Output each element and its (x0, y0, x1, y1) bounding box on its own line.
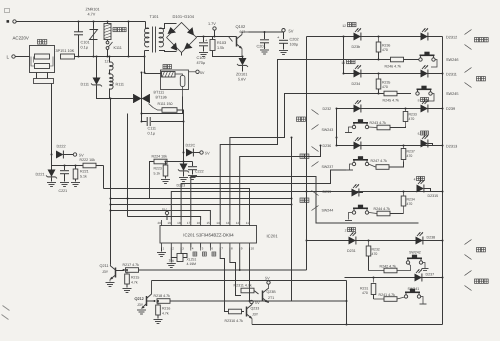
svg-text:R216: R216 (162, 307, 170, 311)
junction top rail x107 (107, 21, 109, 23)
svg-text:R237: R237 (407, 150, 415, 154)
label R245 4.7k (383, 99, 400, 103)
resistor R241 (374, 297, 404, 302)
junction 5V rail x264 (264, 31, 266, 33)
switch SW244 (345, 205, 369, 221)
scan artifact top-left (5, 9, 10, 13)
wire scan row1s to pin14 (220, 60, 378, 221)
inductor L111b (110, 74, 114, 98)
IC201 NC pins (191, 243, 216, 256)
label R221 value (80, 175, 87, 179)
label 1.7V (208, 22, 216, 26)
label C101 (81, 41, 90, 45)
label C222 (195, 170, 204, 174)
svg-text:+: + (277, 35, 280, 40)
IC201 top pins 20-11 (158, 220, 250, 226)
resistor R245 (379, 91, 412, 96)
resistor R2311 (236, 288, 259, 295)
svg-text:470µ: 470µ (197, 61, 206, 65)
junction L rail x109 (109, 56, 111, 58)
wire bus y188 to pin11 (104, 189, 250, 221)
label BT136 (156, 96, 167, 100)
label C202 (290, 38, 299, 42)
capacitor C102 (199, 37, 208, 57)
junction row2 R235 (378, 73, 380, 75)
svg-text:C221: C221 (59, 189, 68, 193)
label Q233 (251, 307, 260, 311)
terminal 5V main (282, 29, 285, 40)
label D222 (57, 145, 66, 149)
junction cluster x183 y161 (183, 161, 185, 163)
resistor R235 (376, 74, 381, 94)
heater plate RL1 (104, 22, 111, 42)
label D237 (426, 273, 435, 277)
svg-text:470: 470 (382, 48, 388, 52)
junction row7 bus (442, 277, 444, 279)
label 0V keepwarm (200, 71, 205, 75)
svg-text:T101: T101 (150, 14, 160, 19)
zener ZD101 (237, 57, 248, 72)
label SW242 (409, 250, 421, 254)
zener D223 (178, 164, 189, 182)
label R112 150 (158, 102, 173, 106)
resistor R221 (71, 166, 80, 187)
label D223 (177, 184, 186, 188)
resistor R223 (161, 162, 170, 184)
label C201 (257, 45, 266, 49)
label 2xiaoshi (345, 228, 356, 233)
wire cathode bus (442, 37, 444, 325)
LED D2311led (421, 65, 429, 77)
svg-text:10: 10 (251, 246, 255, 250)
svg-text:470: 470 (407, 202, 413, 206)
wire pin9 down (239, 248, 241, 271)
capacitor C221 (60, 166, 69, 187)
wire bus y204 (111, 204, 292, 206)
wire row1 (307, 36, 443, 38)
wire bus y210 to pin15 (111, 211, 211, 221)
wire Q236 emitter row (269, 300, 347, 302)
wire row5b jog (424, 189, 431, 192)
junction triac top y72 (141, 72, 143, 74)
label D232 (323, 107, 332, 111)
svg-text:SW243: SW243 (322, 128, 334, 132)
junction triac bottom y113 (141, 113, 143, 115)
svg-text:D232: D232 (323, 107, 332, 111)
label R241 4.7k (379, 293, 396, 297)
label Q236 (267, 290, 277, 294)
switch SW242 (406, 255, 428, 271)
label R215 (131, 276, 139, 280)
label Q212 (135, 297, 144, 307)
label D238 (427, 236, 436, 240)
junction sense row x64 (64, 165, 66, 167)
wire pin7 to R2310 (220, 248, 228, 312)
junction row5 R234 (403, 191, 405, 193)
svg-text:L: L (7, 55, 10, 60)
svg-text:10: 10 (341, 61, 345, 65)
label R232 value (372, 252, 378, 256)
svg-text:4: 4 (192, 246, 194, 250)
junction x346 y300 (346, 300, 348, 302)
LED D23b (354, 28, 362, 40)
wire Q233 emitter bottom row (252, 324, 443, 326)
label XL251 (187, 258, 197, 262)
capacitor C222 (188, 162, 197, 180)
label C111 value (148, 132, 156, 136)
junction row4 R237 (403, 145, 405, 147)
svg-text:R103: R103 (217, 41, 226, 45)
label D111 (81, 83, 90, 87)
label C102 (197, 56, 206, 60)
junction sense row x75 (75, 165, 77, 167)
svg-text:D23b: D23b (352, 45, 361, 49)
wire row5 (307, 191, 443, 193)
svg-text:C111: C111 (148, 127, 157, 131)
svg-text:J3Y: J3Y (252, 313, 259, 317)
label R223 value (154, 172, 161, 176)
wire 5V rail (249, 31, 284, 33)
junction row3 bus (442, 108, 444, 110)
junction x127 y198 (127, 198, 129, 200)
svg-text:3P151 10K: 3P151 10K (56, 49, 75, 53)
svg-text:Q233: Q233 (251, 307, 260, 311)
svg-text:100µ: 100µ (290, 43, 299, 47)
junction x346 y324 (346, 324, 348, 326)
wire matrix left link x343 (343, 37, 345, 74)
wire bus y183 to pin18 (181, 170, 346, 220)
label IC201 part (183, 233, 234, 238)
junction Q211 base node (123, 269, 125, 271)
junction x110 y204 (110, 204, 112, 206)
thermal fuse F1 (175, 74, 185, 97)
label baowen (163, 65, 172, 69)
svg-text:R236: R236 (382, 44, 390, 48)
zener D111 (91, 57, 111, 99)
svg-text:Q23B: Q23B (267, 290, 277, 294)
svg-text:5.6V: 5.6V (238, 78, 246, 82)
junction R216 top (157, 300, 159, 302)
capacitor C111 (142, 117, 184, 126)
node a mains terminal (7, 20, 146, 23)
label Q233 J3Y (252, 313, 259, 317)
wire row5 extension to pin19 (171, 192, 306, 221)
function label dingshi (465, 240, 486, 260)
diode D22C (186, 149, 200, 157)
terminal 1.7V (213, 27, 216, 37)
junction row3 left (336, 108, 338, 110)
svg-text:5V: 5V (289, 29, 294, 34)
junction cluster x165 y161 (165, 161, 167, 163)
svg-text:SW245: SW245 (446, 92, 458, 96)
svg-text:Q211: Q211 (100, 264, 109, 268)
wire pin8 to R2311 (230, 248, 241, 296)
LED D2312led (421, 28, 429, 40)
svg-text:K111: K111 (114, 46, 122, 50)
resistor R2310 (229, 309, 245, 314)
svg-text:13: 13 (226, 221, 230, 225)
junction x291 y137 (291, 137, 293, 139)
svg-text:R241 4.7k: R241 4.7k (379, 293, 396, 297)
label R218 4.7k (154, 294, 171, 298)
junction Q212 base node (154, 300, 156, 302)
LED D232 (354, 100, 362, 112)
wire pin10 down (249, 248, 251, 302)
svg-text:D221: D221 (36, 173, 45, 177)
wire matrix left bus x306 (306, 37, 308, 271)
IC201 bottom pins 1-10 (162, 243, 255, 250)
label R2310 4.7k (225, 319, 244, 323)
junction L rail x96 (96, 56, 98, 58)
svg-text:D2313: D2313 (446, 145, 457, 149)
wire row5 led jog (359, 192, 363, 193)
label R221 (80, 170, 89, 174)
label D23b (352, 45, 361, 49)
junction L rail x107 (107, 56, 109, 58)
resistor R222 (83, 163, 104, 168)
junction x320 y145 (320, 145, 322, 147)
function label baowenguan (465, 271, 489, 291)
junction row7 R231 (373, 277, 375, 279)
svg-text:D231: D231 (347, 249, 356, 253)
svg-text:D111: D111 (81, 83, 90, 87)
function label feng/qiang (465, 30, 489, 50)
label 10xiaoshi (341, 60, 355, 66)
svg-text:C101: C101 (81, 41, 90, 45)
LED D2313led (421, 135, 429, 147)
terminal 5V Q236 (265, 277, 270, 285)
terminal 5V D22C (200, 151, 203, 154)
svg-text:C201: C201 (257, 45, 266, 49)
svg-text:8: 8 (231, 246, 233, 250)
svg-text:1.5k: 1.5k (217, 46, 224, 50)
svg-text:C222: C222 (195, 170, 204, 174)
svg-text:470: 470 (407, 154, 413, 158)
svg-text:R2311 4.7k: R2311 4.7k (234, 284, 252, 288)
label BT111 (154, 91, 165, 95)
junction rail x214 (214, 36, 216, 38)
label R236 (382, 44, 390, 48)
junction row3 R233 (405, 108, 407, 110)
label C202 value (290, 43, 299, 47)
svg-text:IC201: IC201 (267, 234, 279, 239)
junction row6 R232 (368, 240, 370, 242)
label R235 value (382, 85, 388, 89)
label 4xiaoshi (414, 177, 425, 182)
label C102 value (197, 61, 206, 65)
junction top rail x128 (128, 21, 130, 23)
stub bridge negative (181, 53, 183, 56)
svg-text:16: 16 (197, 221, 201, 225)
junction x110 y210 (110, 210, 112, 212)
label R236 value (382, 48, 388, 52)
LED D2315led (417, 180, 425, 192)
label R235 (382, 81, 390, 85)
svg-text:5V: 5V (162, 208, 167, 212)
junction L rail x78 (78, 56, 80, 58)
label Q212 (135, 297, 144, 301)
label R243 4.7k (370, 121, 387, 125)
label D233 (323, 190, 332, 194)
svg-text:19: 19 (167, 221, 171, 225)
label R103 (217, 41, 226, 45)
wire bus y176 to pin17 (191, 177, 419, 224)
label R244 4.7k (374, 207, 391, 211)
label ZD101 (236, 73, 247, 77)
svg-text:D2312: D2312 (446, 36, 457, 40)
svg-text:4.7k: 4.7k (162, 312, 169, 316)
wire Q212 collector feed (152, 280, 347, 282)
svg-text:2: 2 (345, 228, 347, 232)
label 8xiaoshi (418, 98, 429, 103)
transistor Q102 (229, 32, 249, 57)
terminal 0V keepwarm (189, 70, 200, 73)
junction row1 left (343, 36, 345, 38)
label R217 4.7k (123, 263, 140, 267)
label C111 (148, 127, 157, 131)
label R216 value (162, 312, 169, 316)
switch SW245 (416, 86, 434, 101)
label RF151 10K (56, 49, 75, 53)
junction snubber left (141, 121, 143, 123)
transistor Q211 (106, 265, 116, 287)
svg-text:0.1µ: 0.1µ (81, 46, 89, 50)
svg-text:4.7k: 4.7k (131, 281, 138, 285)
label AC220V (13, 36, 29, 41)
function label zhuansu (300, 147, 319, 167)
junction R215 top (126, 269, 128, 271)
label R223 (154, 167, 162, 171)
junction D222 anode (51, 154, 53, 156)
wire Q212 base (147, 300, 155, 302)
label XL251 10u (169, 259, 175, 263)
label ZD101 value (238, 78, 246, 82)
svg-text:R217 4.7k: R217 4.7k (123, 263, 140, 267)
junction row6 bus (442, 240, 444, 242)
svg-text:17: 17 (187, 221, 191, 225)
wire bus y216 to pin16 (128, 217, 201, 221)
label SW243 (322, 128, 334, 132)
wire vertical x291 (291, 138, 293, 302)
resistor R243 (369, 125, 406, 130)
svg-text:D236: D236 (323, 144, 332, 148)
svg-text:Q212: Q212 (135, 297, 144, 301)
resistor R242 (369, 264, 411, 273)
label T101 (150, 14, 160, 19)
label C221 (59, 189, 68, 193)
svg-text:9: 9 (241, 246, 243, 250)
label 5V D22C (205, 152, 210, 156)
svg-text:470: 470 (362, 291, 368, 295)
wire Q211 base (116, 269, 123, 272)
label R234 (407, 198, 415, 202)
svg-text:R215: R215 (131, 276, 139, 280)
resistor R215 (123, 270, 132, 293)
svg-text:Q102: Q102 (236, 24, 247, 29)
wire gate node down to D22C (183, 122, 185, 164)
wire bus y156 to pin12 (240, 146, 321, 221)
switch SW241 (404, 289, 426, 304)
svg-text:7: 7 (221, 246, 223, 250)
resistor R112 (153, 108, 184, 122)
label R232 (372, 248, 380, 252)
svg-text:D233: D233 (323, 190, 332, 194)
label Q102 667 (240, 30, 246, 34)
svg-text:R234: R234 (407, 198, 415, 202)
capacitor C201 (260, 32, 269, 54)
label fareman (113, 28, 126, 32)
wire bridge output rail (197, 36, 237, 38)
capacitor C101 (74, 22, 83, 57)
svg-text:+: + (205, 38, 208, 43)
junction top rail x78 (78, 21, 80, 23)
svg-text:12: 12 (105, 60, 109, 64)
label R247 4.7k (371, 159, 388, 163)
label 12ohm (105, 60, 109, 64)
label R2311 4.7k (234, 284, 252, 288)
label IC201 right (267, 234, 279, 239)
svg-text:4: 4 (414, 177, 416, 181)
transistor Q236 (263, 284, 269, 302)
switch SW237 (346, 156, 369, 170)
label D231 (347, 249, 356, 253)
wire row7 (345, 277, 443, 279)
label ZNR101 (86, 8, 100, 12)
svg-text:R247 4.7k: R247 4.7k (371, 159, 388, 163)
svg-text:D101~D104: D101~D104 (173, 14, 195, 19)
svg-text:AC220V: AC220V (13, 36, 29, 41)
label 5V zerocross (79, 154, 84, 158)
resistor R233 (403, 109, 408, 127)
label D221 (36, 173, 45, 177)
junction x110 y198 (110, 198, 112, 200)
label D2313 (446, 145, 457, 149)
label R215 value (131, 281, 138, 285)
zener D221 (46, 166, 57, 187)
wire bus y198 (111, 198, 292, 200)
label K111 (114, 46, 122, 50)
wire into keep-warm box (145, 73, 162, 75)
svg-text:D2311: D2311 (446, 73, 457, 77)
svg-text:ZNR101: ZNR101 (86, 8, 100, 12)
wire scan row2s to pin13 (230, 94, 379, 221)
label D22C (186, 144, 196, 148)
label SW237 (322, 165, 334, 169)
svg-text:5V: 5V (255, 301, 260, 305)
svg-text:10µ: 10µ (169, 259, 175, 263)
wire vertical x127 (127, 114, 129, 217)
resistor R217 (124, 268, 307, 273)
resistor R218 (157, 299, 292, 304)
LED D236 (354, 137, 362, 149)
terminal L (12, 55, 30, 58)
svg-text:R222 10k: R222 10k (80, 158, 96, 162)
capacitor C202 (277, 35, 288, 55)
svg-text:D22C: D22C (186, 144, 196, 148)
label D101~D104 (173, 14, 195, 19)
resistor R236 (376, 37, 381, 60)
svg-text:R242 4.7k: R242 4.7k (380, 265, 397, 269)
svg-text:R111: R111 (116, 83, 125, 87)
svg-text:470: 470 (372, 252, 378, 256)
junction rail x203 (203, 36, 205, 38)
svg-text:R232: R232 (372, 248, 380, 252)
svg-text:D222: D222 (57, 145, 66, 149)
svg-text:SW246: SW246 (446, 58, 458, 62)
svg-text:R111 150: R111 150 (158, 102, 173, 106)
switch SW243 (345, 119, 369, 132)
switch SW246 (419, 52, 437, 67)
